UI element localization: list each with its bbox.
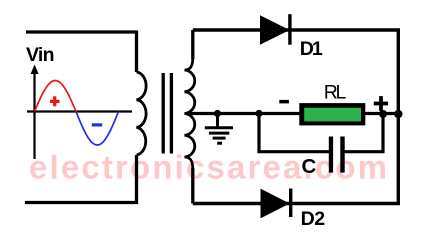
Vin waveform negative half (blue) — [76, 112, 119, 146]
node: output rail junction dot — [394, 110, 402, 118]
plus sign red — [50, 96, 60, 106]
svg-text:D2: D2 — [301, 208, 326, 230]
wire: center tap rail to load — [186, 112, 300, 115]
Vin graph horizontal axis — [27, 110, 132, 112]
svg-text:Vin: Vin — [26, 44, 55, 66]
wire: secondary bottom lead down to D2 branch — [191, 168, 194, 204]
wire: resistor right to rail — [365, 112, 398, 115]
node: capacitor right junction dot — [379, 110, 387, 118]
diode D1 — [261, 14, 292, 45]
node: capacitor left junction dot — [255, 110, 262, 117]
transformer secondary winding — [185, 58, 195, 169]
transformer core line 1 — [162, 73, 165, 154]
capacitor C — [329, 137, 345, 173]
wire: primary loop (top, right vertical, bottom) — [25, 32, 137, 203]
transformer core line 2 — [170, 73, 173, 154]
wire: capacitor branch loop — [259, 114, 383, 152]
svg-text:D1: D1 — [300, 38, 323, 60]
minus sign blue — [92, 123, 102, 126]
svg-text:RL: RL — [324, 81, 347, 103]
wire: top branch with right rail and bottom branch — [193, 30, 398, 204]
plus polarity label — [374, 96, 388, 111]
ground — [205, 114, 233, 144]
node: ground junction dot — [214, 110, 221, 117]
svg-text:C: C — [302, 155, 317, 178]
minus polarity label — [279, 100, 289, 104]
transformer primary winding — [137, 72, 147, 155]
diode D2 — [261, 189, 292, 218]
Vin waveform positive half (red) — [35, 81, 77, 112]
Vin graph vertical axis — [31, 65, 39, 160]
resistor RL — [299, 103, 365, 125]
wire: secondary top lead up to D1 branch — [191, 30, 194, 59]
